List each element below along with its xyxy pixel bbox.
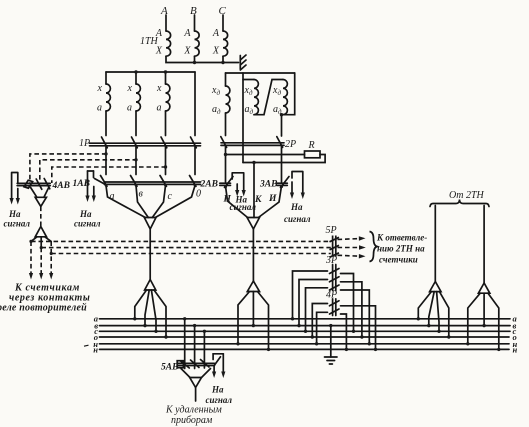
svg-text:сигнал: сигнал (206, 395, 233, 405)
svg-text:1АВ: 1АВ (73, 179, 90, 189)
svg-text:приборам: приборам (171, 415, 213, 426)
svg-text:в: в (139, 189, 144, 200)
svg-text:сигнал: сигнал (4, 219, 31, 229)
svg-text:реле повторителей: реле повторителей (0, 303, 87, 314)
svg-text:сигнал: сигнал (230, 202, 257, 212)
svg-text:R: R (308, 140, 315, 151)
svg-text:2Р: 2Р (285, 139, 296, 150)
svg-text:X: X (155, 46, 163, 57)
svg-text:К ответвле-: К ответвле- (376, 233, 427, 243)
svg-text:К удаленным: К удаленным (165, 405, 222, 416)
svg-text:На: На (211, 385, 224, 395)
svg-text:1Р: 1Р (79, 138, 90, 149)
svg-text:На: На (8, 209, 21, 219)
svg-text:3АВ: 3АВ (259, 180, 277, 190)
svg-text:a: a (157, 103, 162, 114)
svg-text:a: a (97, 103, 102, 114)
svg-text:3Р: 3Р (325, 255, 337, 266)
svg-text:2АВ: 2АВ (200, 180, 218, 190)
svg-text:x: x (97, 83, 103, 94)
svg-text:x: x (156, 83, 162, 94)
svg-text:н: н (93, 345, 98, 355)
svg-text:4АВ: 4АВ (52, 181, 70, 191)
svg-text:сигнал: сигнал (74, 219, 101, 229)
svg-text:С: С (219, 5, 227, 17)
svg-text:5АВ: 5АВ (161, 363, 178, 373)
svg-text:4Р: 4Р (326, 290, 337, 301)
svg-text:И: И (268, 194, 277, 204)
svg-text:0: 0 (196, 189, 201, 200)
svg-text:x: x (127, 83, 133, 94)
svg-text:А: А (155, 28, 163, 39)
svg-text:X: X (212, 46, 220, 57)
svg-text:На: На (290, 202, 303, 212)
svg-text:X: X (183, 46, 191, 57)
svg-text:В: В (190, 5, 197, 17)
svg-text:н: н (513, 345, 518, 355)
svg-text:На: На (79, 209, 92, 219)
svg-text:5Р: 5Р (326, 225, 337, 236)
svg-text:счетчики: счетчики (379, 255, 418, 265)
svg-text:а: а (110, 191, 115, 202)
svg-text:a: a (127, 103, 132, 114)
svg-text:А: А (183, 28, 191, 39)
svg-text:сигнал: сигнал (284, 214, 311, 224)
svg-text:От 2ТН: От 2ТН (449, 190, 485, 201)
svg-text:нию 2ТН на: нию 2ТН на (377, 244, 425, 254)
svg-text:А: А (160, 5, 168, 17)
svg-text:с: с (168, 191, 173, 202)
svg-text:А: А (212, 28, 220, 39)
